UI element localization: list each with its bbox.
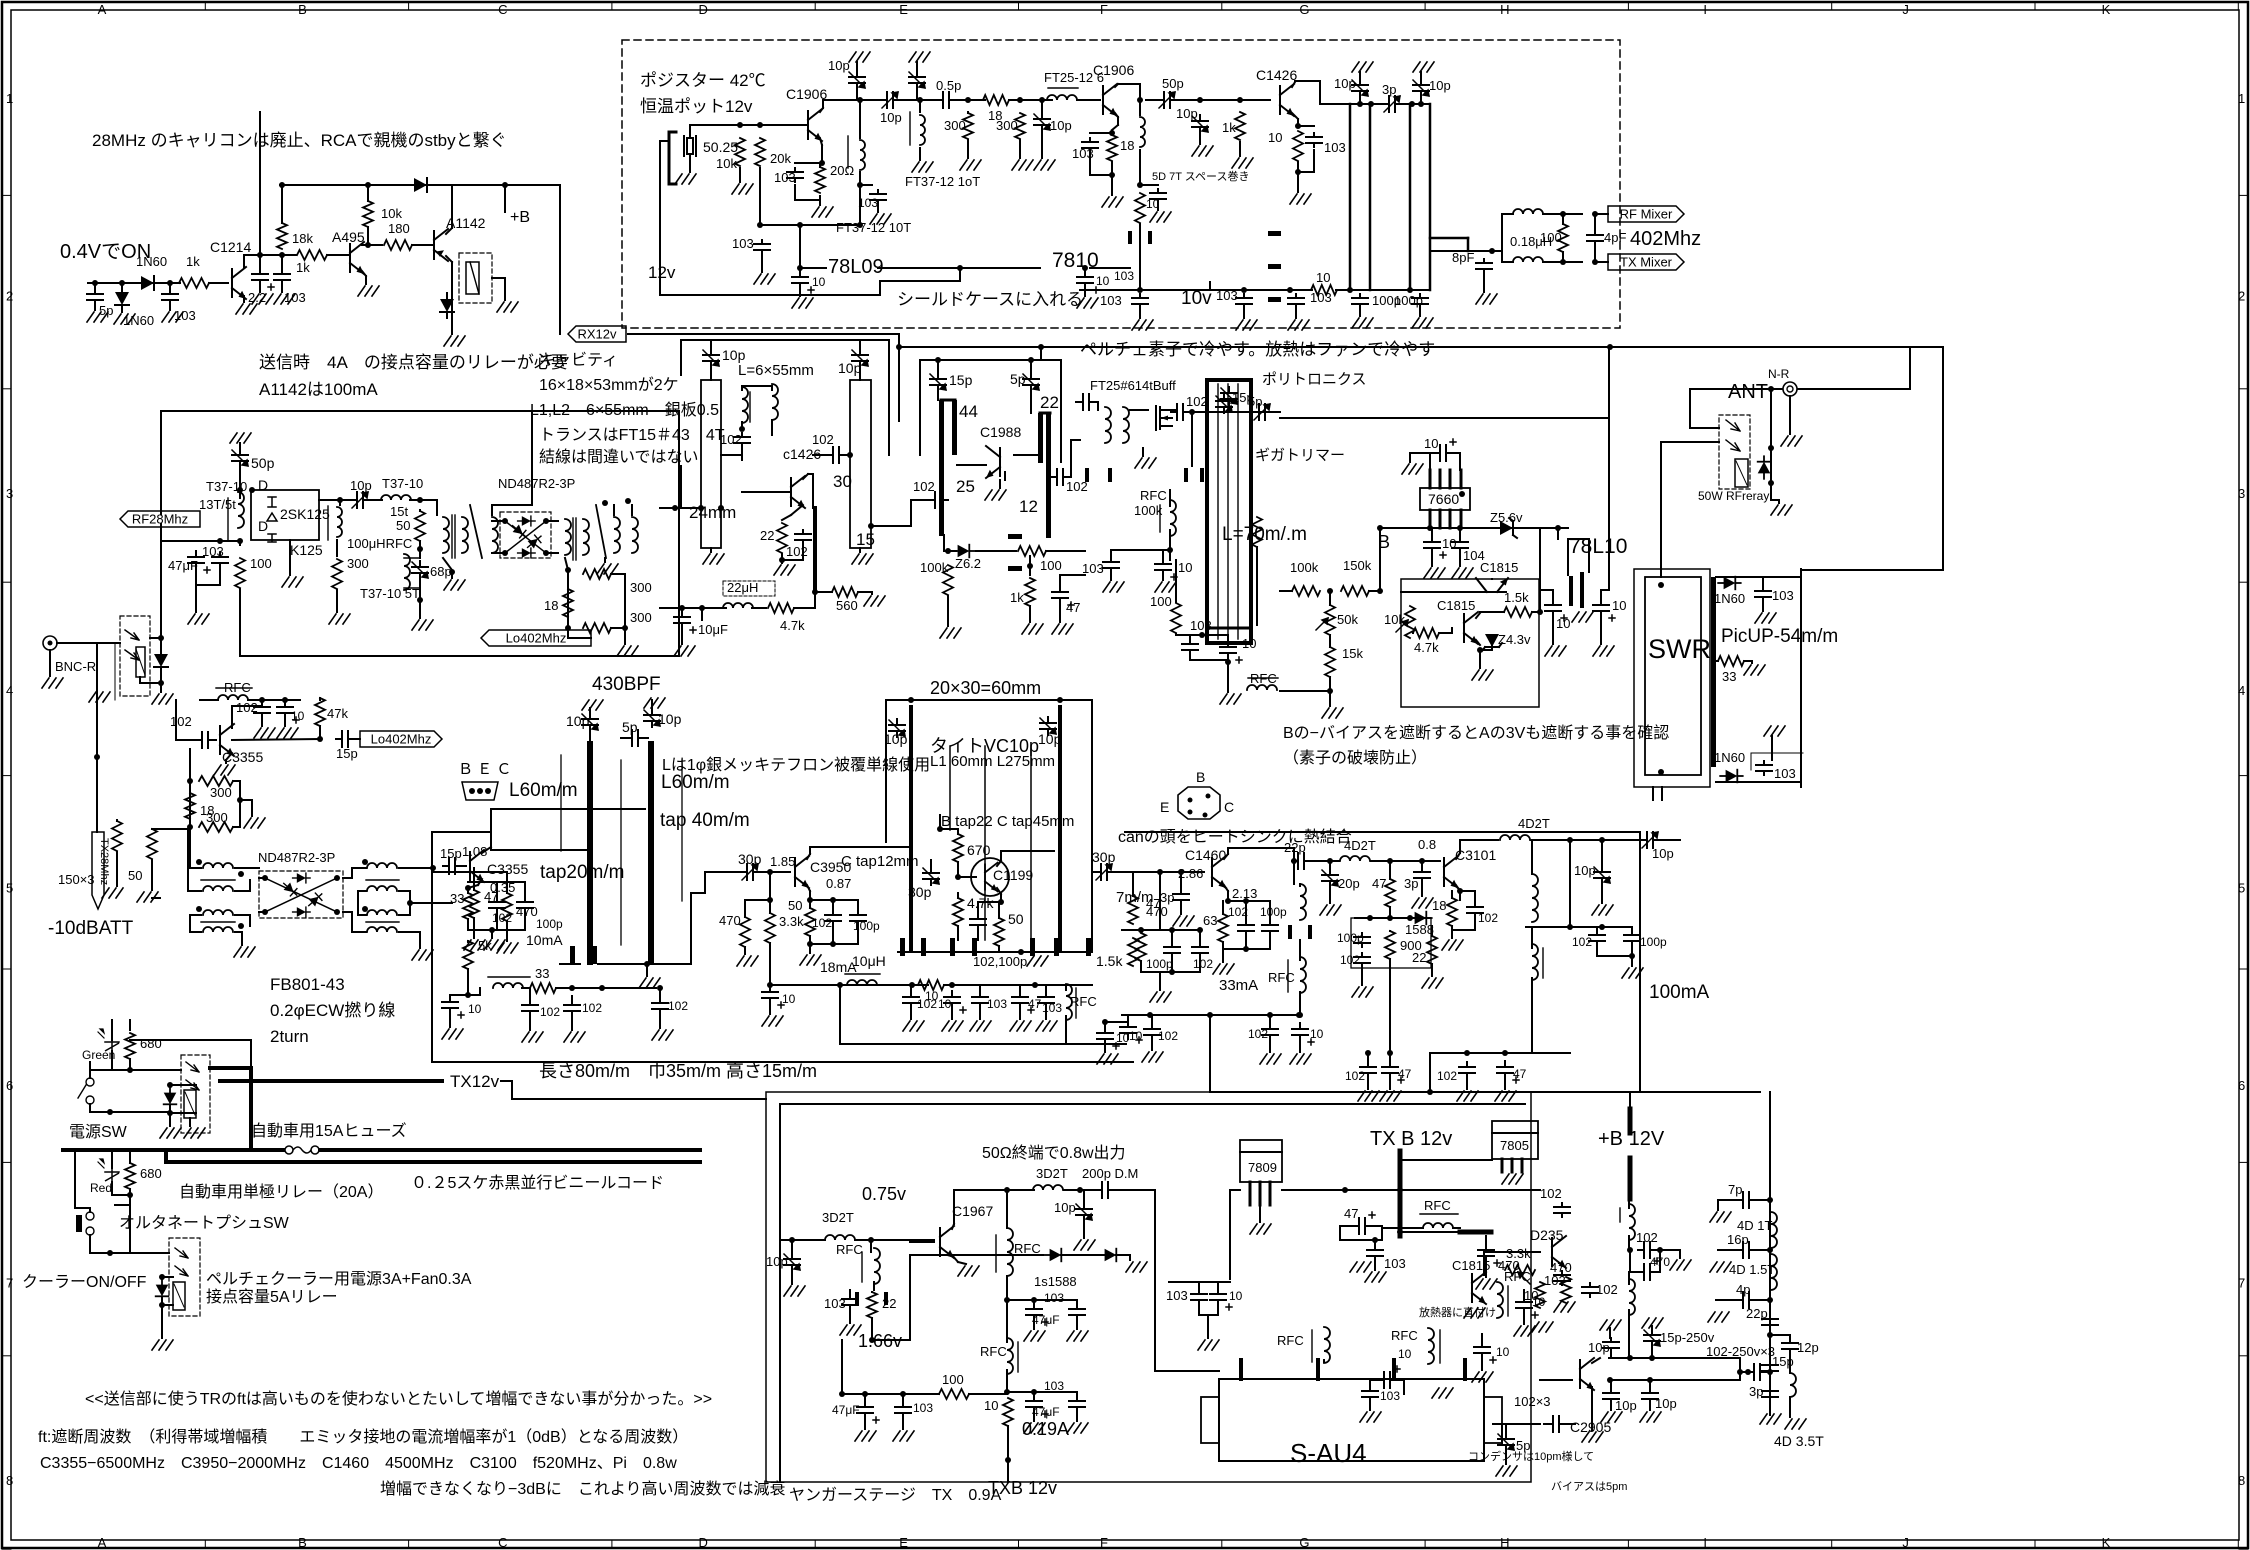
svg-text:C1199: C1199 <box>993 867 1033 883</box>
svg-text:102-250v×3: 102-250v×3 <box>1706 1344 1775 1359</box>
svg-text:10p: 10p <box>1334 76 1356 91</box>
svg-text:ペルチェクーラー用電源3A+Fan0.3A: ペルチェクーラー用電源3A+Fan0.3A <box>206 1270 472 1288</box>
svg-text:15p-250v: 15p-250v <box>1660 1330 1715 1345</box>
svg-text:47: 47 <box>1066 600 1080 615</box>
svg-text:ギガトリマー: ギガトリマー <box>1255 447 1345 464</box>
svg-text:6: 6 <box>2238 1078 2245 1093</box>
svg-text:10: 10 <box>1096 274 1110 288</box>
svg-text:F: F <box>1100 1535 1108 1550</box>
svg-text:オルタネートプシュSW: オルタネートプシュSW <box>119 1214 290 1232</box>
svg-text:103: 103 <box>1310 290 1332 305</box>
svg-text:20k: 20k <box>770 151 791 166</box>
svg-text:100p: 100p <box>1146 957 1173 971</box>
svg-text:50Ω終端で0.8w出力: 50Ω終端で0.8w出力 <box>982 1144 1126 1162</box>
svg-text:102: 102 <box>1572 935 1592 949</box>
svg-text:25: 25 <box>956 477 975 496</box>
svg-text:RFC: RFC <box>1391 1328 1418 1343</box>
svg-text:Lo402Mhz: Lo402Mhz <box>371 732 432 747</box>
svg-text:1k: 1k <box>186 254 200 269</box>
svg-text:C1815: C1815 <box>1437 598 1475 613</box>
svg-text:30p: 30p <box>908 884 932 900</box>
svg-text:FT37-12 10T: FT37-12 10T <box>836 220 911 235</box>
svg-text:10p: 10p <box>1038 731 1062 747</box>
svg-text:RX12v: RX12v <box>577 327 617 342</box>
svg-text:22: 22 <box>1412 950 1426 965</box>
svg-text:102: 102 <box>812 916 832 930</box>
svg-text:T37-10 5T: T37-10 5T <box>360 586 420 601</box>
svg-text:102: 102 <box>1540 1186 1562 1201</box>
svg-text:15t: 15t <box>390 504 408 519</box>
svg-text:10p: 10p <box>884 731 908 747</box>
svg-text:50W RFreray: 50W RFreray <box>1698 489 1769 503</box>
svg-text:10p: 10p <box>722 347 746 363</box>
svg-text:102: 102 <box>1345 1069 1365 1083</box>
svg-text:4D2T: 4D2T <box>1344 838 1376 853</box>
svg-text:100k: 100k <box>1134 503 1163 518</box>
svg-text:RF28Mhz: RF28Mhz <box>132 512 188 527</box>
svg-text:<<送信部に使うTRのftは高いものを使わないとたいして増幅: <<送信部に使うTRのftは高いものを使わないとたいして増幅できない事が分かった… <box>85 1390 712 1408</box>
svg-text:30p: 30p <box>738 851 762 867</box>
svg-text:K: K <box>2102 2 2111 17</box>
svg-text:10p: 10p <box>1429 78 1451 93</box>
svg-text:20p: 20p <box>1338 876 1360 891</box>
svg-text:7p: 7p <box>1728 1182 1742 1197</box>
svg-text:10: 10 <box>1424 436 1438 451</box>
svg-text:4D 3.5T: 4D 3.5T <box>1774 1433 1824 1449</box>
svg-text:100: 100 <box>1040 558 1062 573</box>
svg-text:150k: 150k <box>1343 558 1372 573</box>
svg-text:G: G <box>1299 1535 1309 1550</box>
svg-text:430BPF: 430BPF <box>592 674 661 695</box>
svg-text:A: A <box>98 1535 107 1550</box>
svg-text:A1142は100mA: A1142は100mA <box>259 380 378 399</box>
svg-text:10: 10 <box>1316 270 1330 285</box>
svg-text:10k: 10k <box>381 206 402 221</box>
svg-text:102: 102 <box>1186 394 1208 409</box>
svg-text:300: 300 <box>996 118 1018 133</box>
svg-text:47: 47 <box>1344 1206 1358 1221</box>
svg-text:180: 180 <box>388 221 410 236</box>
svg-text:ヤンガーステージ TX 0.9A: ヤンガーステージ TX 0.9A <box>789 1486 1002 1504</box>
svg-text:RFC: RFC <box>1070 994 1097 1009</box>
svg-text:100p: 100p <box>1337 931 1364 945</box>
svg-text:470: 470 <box>516 904 538 919</box>
svg-text:7805: 7805 <box>1500 1138 1529 1153</box>
svg-text:300: 300 <box>630 580 652 595</box>
svg-text:102: 102 <box>1066 479 1088 494</box>
svg-text:A495: A495 <box>332 229 365 245</box>
svg-text:10: 10 <box>468 1002 482 1016</box>
svg-text:RFC: RFC <box>1014 1241 1041 1256</box>
svg-text:キャビティ: キャビティ <box>539 351 618 369</box>
svg-text:FT25#614tBuff: FT25#614tBuff <box>1090 378 1176 393</box>
svg-text:47μF: 47μF <box>168 558 198 573</box>
svg-text:L1 60mm L275mm: L1 60mm L275mm <box>930 753 1055 770</box>
svg-text:24mm: 24mm <box>689 503 736 522</box>
svg-text:5D 7T スペース巻き: 5D 7T スペース巻き <box>1152 170 1250 183</box>
svg-text:7660: 7660 <box>1428 491 1459 507</box>
svg-text:103: 103 <box>1044 1291 1064 1305</box>
svg-text:100k: 100k <box>1290 560 1319 575</box>
svg-text:10: 10 <box>1496 1345 1510 1359</box>
svg-text:1.66v: 1.66v <box>858 1331 902 1351</box>
svg-text:50.25: 50.25 <box>703 139 738 155</box>
svg-text:18: 18 <box>1120 138 1134 153</box>
svg-text:50: 50 <box>788 898 802 913</box>
svg-text:50p: 50p <box>251 455 275 471</box>
svg-text:1.5k: 1.5k <box>1504 590 1529 605</box>
svg-text:103: 103 <box>913 1401 933 1415</box>
svg-text:13T/5t: 13T/5t <box>199 497 236 512</box>
svg-text:103: 103 <box>1324 140 1346 155</box>
svg-text:47: 47 <box>1513 1067 1527 1081</box>
svg-text:Z6.2: Z6.2 <box>955 556 981 571</box>
svg-text:680: 680 <box>140 1036 162 1051</box>
svg-text:電源SW: 電源SW <box>69 1123 128 1141</box>
svg-text:5p: 5p <box>1010 371 1026 387</box>
svg-text:C2905: C2905 <box>1570 1419 1611 1435</box>
svg-text:3.3k: 3.3k <box>1506 1246 1531 1261</box>
svg-text:7809: 7809 <box>1248 1160 1277 1175</box>
svg-text:0.8: 0.8 <box>1418 837 1436 852</box>
svg-text:2.2: 2.2 <box>248 290 266 305</box>
svg-text:103: 103 <box>1216 288 1238 303</box>
svg-text:10v: 10v <box>1181 288 1212 309</box>
svg-text:RFC: RFC <box>1268 970 1295 985</box>
svg-text:10p: 10p <box>1050 118 1072 133</box>
svg-text:RFC: RFC <box>1424 1198 1451 1213</box>
svg-text:（素子の破壊防止）: （素子の破壊防止） <box>1283 749 1427 767</box>
svg-text:103: 103 <box>1114 269 1134 283</box>
svg-text:G: G <box>1299 2 1309 17</box>
svg-text:K: K <box>2102 1535 2111 1550</box>
svg-text:4.7k: 4.7k <box>1414 640 1439 655</box>
svg-text:4pF: 4pF <box>1604 230 1626 245</box>
svg-text:Z5.6v: Z5.6v <box>1490 510 1523 525</box>
svg-text:3D2T: 3D2T <box>822 1210 854 1225</box>
svg-text:送信時 4A の接点容量のリレーが必要: 送信時 4A の接点容量のリレーが必要 <box>259 353 568 372</box>
svg-text:1s1588: 1s1588 <box>1034 1274 1077 1289</box>
svg-text:A: A <box>98 2 107 17</box>
svg-text:L=6×55mm: L=6×55mm <box>738 362 814 379</box>
svg-text:-10dBATT: -10dBATT <box>48 918 134 939</box>
svg-text:103: 103 <box>774 170 796 185</box>
svg-text:C1906: C1906 <box>786 86 827 102</box>
svg-text:47μF: 47μF <box>832 1403 860 1417</box>
svg-text:10: 10 <box>782 992 796 1006</box>
svg-text:RFC: RFC <box>1140 488 1167 503</box>
svg-text:1588: 1588 <box>1405 922 1434 937</box>
svg-text:103: 103 <box>1380 1389 1400 1403</box>
svg-text:10k: 10k <box>1384 612 1405 627</box>
svg-text:Lは1φ銀メッキテフロン被覆単線使用: Lは1φ銀メッキテフロン被覆単線使用 <box>662 756 930 774</box>
svg-text:1N60: 1N60 <box>1714 750 1745 765</box>
svg-text:22: 22 <box>1040 393 1059 412</box>
svg-text:D: D <box>699 1535 708 1550</box>
svg-text:15p: 15p <box>949 372 973 388</box>
svg-text:10p: 10p <box>1574 863 1596 878</box>
svg-text:1k: 1k <box>1222 120 1236 135</box>
svg-text:PicUP-54m/m: PicUP-54m/m <box>1721 626 1838 647</box>
svg-text:50k: 50k <box>1337 612 1358 627</box>
svg-text:1N60: 1N60 <box>1714 591 1745 606</box>
svg-text:50: 50 <box>396 518 410 533</box>
svg-text:22: 22 <box>882 1296 896 1311</box>
svg-text:102: 102 <box>236 700 258 715</box>
svg-text:20Ω: 20Ω <box>830 163 854 178</box>
svg-text:102: 102 <box>1636 1230 1658 1245</box>
svg-text:C: C <box>498 1535 507 1550</box>
svg-text:7: 7 <box>6 1275 13 1290</box>
svg-text:102: 102 <box>913 479 935 494</box>
svg-text:Green: Green <box>82 1048 115 1062</box>
svg-text:J: J <box>1902 2 1909 17</box>
svg-text:44: 44 <box>959 402 978 421</box>
svg-text:63: 63 <box>1203 913 1217 928</box>
svg-text:102: 102 <box>668 999 688 1013</box>
svg-text:B tap22 C tap45mm: B tap22 C tap45mm <box>941 813 1074 830</box>
svg-text:B: B <box>298 1535 307 1550</box>
svg-text:10p: 10p <box>1652 846 1674 861</box>
svg-text:RFC: RFC <box>980 1344 1007 1359</box>
svg-text:560: 560 <box>836 598 858 613</box>
svg-text:0.87: 0.87 <box>826 876 851 891</box>
svg-text:F: F <box>1100 2 1108 17</box>
svg-text:2: 2 <box>6 288 13 303</box>
svg-text:0.75v: 0.75v <box>862 1184 906 1204</box>
svg-text:Red: Red <box>90 1181 112 1195</box>
svg-text:I: I <box>1703 2 1707 17</box>
svg-text:100p: 100p <box>536 917 563 931</box>
svg-text:18: 18 <box>544 598 558 613</box>
svg-text:102: 102 <box>1437 1069 1457 1083</box>
svg-text:Lo402Mhz: Lo402Mhz <box>506 631 567 646</box>
svg-text:4.7k: 4.7k <box>780 618 805 633</box>
svg-text:E: E <box>899 1535 908 1550</box>
svg-text:C1967: C1967 <box>952 1203 993 1219</box>
svg-text:トランスはFT15＃43 4T: トランスはFT15＃43 4T <box>539 427 725 444</box>
svg-text:102: 102 <box>1158 1029 1178 1043</box>
svg-text:15: 15 <box>856 530 875 549</box>
svg-text:10: 10 <box>291 709 305 723</box>
svg-text:103: 103 <box>1082 561 1104 576</box>
svg-text:1: 1 <box>2238 91 2245 106</box>
svg-text:10p: 10p <box>1588 1340 1610 1355</box>
svg-text:10: 10 <box>1310 1027 1324 1041</box>
svg-text:2turn: 2turn <box>270 1027 309 1046</box>
svg-text:C1815: C1815 <box>1480 560 1518 575</box>
svg-text:10p: 10p <box>658 711 682 727</box>
svg-text:30p: 30p <box>1092 849 1116 865</box>
svg-text:300: 300 <box>210 785 232 800</box>
svg-text:100k: 100k <box>920 560 949 575</box>
svg-text:E: E <box>899 2 908 17</box>
svg-text:100p: 100p <box>1640 935 1667 949</box>
svg-text:100p: 100p <box>1394 293 1423 308</box>
svg-text:L60m/m: L60m/m <box>509 780 578 801</box>
svg-text:3: 3 <box>2238 486 2245 501</box>
svg-text:10: 10 <box>1556 616 1570 631</box>
svg-text:5p: 5p <box>1516 1438 1530 1453</box>
svg-text:10: 10 <box>1612 598 1626 613</box>
svg-text:T37-10: T37-10 <box>206 479 247 494</box>
svg-text:10p: 10p <box>1615 1398 1637 1413</box>
svg-text:100mA: 100mA <box>1649 982 1710 1003</box>
svg-text:3D2T: 3D2T <box>1036 1166 1068 1181</box>
svg-text:3p: 3p <box>1404 876 1418 891</box>
svg-text:T37-10: T37-10 <box>382 476 423 491</box>
svg-text:103: 103 <box>824 1296 846 1311</box>
svg-text:L=70m/.m: L=70m/.m <box>1222 524 1307 545</box>
svg-text:3.3k: 3.3k <box>779 914 804 929</box>
svg-text:TX Mixer: TX Mixer <box>1620 255 1673 270</box>
svg-text:10p: 10p <box>828 58 850 73</box>
svg-text:ND487R2-3P: ND487R2-3P <box>258 850 335 865</box>
svg-text:0.19A: 0.19A <box>1022 1419 1069 1439</box>
svg-text:18: 18 <box>1432 898 1446 913</box>
svg-text:300: 300 <box>630 610 652 625</box>
svg-text:０.２5スケ赤黒並行ビニールコード: ０.２5スケ赤黒並行ビニールコード <box>411 1174 664 1192</box>
svg-text:47k: 47k <box>327 706 348 721</box>
svg-text:103: 103 <box>1772 588 1794 603</box>
svg-text:クーラーON/OFF: クーラーON/OFF <box>22 1273 147 1291</box>
svg-text:2: 2 <box>2238 288 2245 303</box>
svg-text:50p: 50p <box>1162 76 1184 91</box>
svg-text:102: 102 <box>1248 1027 1268 1041</box>
svg-text:C1988: C1988 <box>980 424 1021 440</box>
svg-text:放熱器に直付け: 放熱器に直付け <box>1419 1305 1496 1319</box>
svg-text:16p: 16p <box>1727 1232 1749 1247</box>
svg-text:canの頭をヒートシンクに熱結合: canの頭をヒートシンクに熱結合 <box>1118 828 1352 846</box>
svg-text:10p: 10p <box>1176 106 1198 121</box>
svg-text:ペルチェ素子で冷やす。放熱はファンで冷やす: ペルチェ素子で冷やす。放熱はファンで冷やす <box>1080 340 1435 359</box>
svg-text:Bの−バイアスを遮断するとAの3Vも遮断する事を確認: Bの−バイアスを遮断するとAの3Vも遮断する事を確認 <box>1283 724 1669 742</box>
svg-text:I: I <box>1703 1535 1707 1550</box>
svg-text:20×30=60mm: 20×30=60mm <box>930 678 1041 698</box>
svg-text:TX B 12v: TX B 12v <box>1370 1128 1452 1150</box>
svg-text:103: 103 <box>1044 1379 1064 1393</box>
svg-text:103: 103 <box>1774 766 1796 781</box>
svg-text:402Mhz: 402Mhz <box>1630 228 1701 250</box>
svg-text:10p: 10p <box>880 110 902 125</box>
svg-text:TXB 12v: TXB 12v <box>988 1478 1057 1498</box>
svg-text:長さ80m/m 巾35m/m 高さ15m/m: 長さ80m/m 巾35m/m 高さ15m/m <box>539 1061 817 1081</box>
svg-text:5p: 5p <box>622 719 638 735</box>
svg-text:102: 102 <box>1544 1273 1566 1288</box>
svg-text:102,100p: 102,100p <box>973 954 1027 969</box>
svg-text:300: 300 <box>347 556 369 571</box>
svg-text:10p: 10p <box>766 1254 788 1269</box>
svg-text:1.5k: 1.5k <box>1096 953 1123 969</box>
svg-text:28MHz のキャリコンは廃止、RCAで親機のstbyと繋ぐ: 28MHz のキャリコンは廃止、RCAで親機のstbyと繋ぐ <box>92 131 507 150</box>
svg-text:シールドケースに入れる: シールドケースに入れる <box>897 290 1083 309</box>
svg-text:C1214: C1214 <box>210 239 251 255</box>
svg-text:ポリトロニクス: ポリトロニクス <box>1262 371 1367 388</box>
svg-text:4D2T: 4D2T <box>1518 816 1550 831</box>
svg-text:1N60: 1N60 <box>123 313 154 328</box>
svg-text:16×18×53mmが2ケ: 16×18×53mmが2ケ <box>539 376 679 394</box>
svg-text:12v: 12v <box>648 263 676 282</box>
svg-text:103: 103 <box>202 544 224 559</box>
svg-text:100: 100 <box>1150 594 1172 609</box>
svg-text:10μF: 10μF <box>698 622 728 637</box>
svg-text:RF Mixer: RF Mixer <box>1620 207 1673 222</box>
svg-text:ND487R2-3P: ND487R2-3P <box>498 476 575 491</box>
svg-text:K125: K125 <box>290 542 323 558</box>
svg-text:1: 1 <box>6 91 13 106</box>
svg-text:12p: 12p <box>1797 1340 1819 1355</box>
svg-text:tap 40m/m: tap 40m/m <box>660 810 750 831</box>
svg-text:1k: 1k <box>296 260 310 275</box>
svg-text:0.2φECW撚り線: 0.2φECW撚り線 <box>270 1001 395 1020</box>
svg-text:1N60: 1N60 <box>136 254 167 269</box>
svg-text:10p: 10p <box>1054 1200 1076 1215</box>
svg-text:103: 103 <box>1166 1288 1188 1303</box>
svg-text:33mA: 33mA <box>1219 977 1258 994</box>
svg-text:22μH: 22μH <box>727 580 758 595</box>
svg-text:10: 10 <box>1398 1347 1412 1361</box>
svg-text:100: 100 <box>942 1372 964 1387</box>
svg-text:S-AU4: S-AU4 <box>1290 1438 1367 1468</box>
svg-text:H: H <box>1500 1535 1509 1550</box>
svg-text:10k: 10k <box>716 156 737 171</box>
svg-text:200p D.M: 200p D.M <box>1082 1166 1138 1181</box>
svg-text:1k: 1k <box>1010 590 1024 605</box>
svg-text:300: 300 <box>944 118 966 133</box>
svg-text:接点容量5Aリレー: 接点容量5Aリレー <box>206 1288 338 1306</box>
svg-text:78L09: 78L09 <box>828 256 884 278</box>
svg-text:15p: 15p <box>440 846 462 861</box>
svg-text:47: 47 <box>1398 1067 1412 1081</box>
svg-text:3p: 3p <box>1160 890 1174 905</box>
svg-text:102: 102 <box>1478 911 1498 925</box>
svg-text:8: 8 <box>6 1473 13 1488</box>
svg-text:470: 470 <box>1146 904 1168 919</box>
svg-text:TX28Mhz: TX28Mhz <box>98 838 110 885</box>
svg-text:102: 102 <box>720 432 742 447</box>
svg-text:BNC-R: BNC-R <box>55 659 96 674</box>
svg-text:自動車用単極リレー（20A）: 自動車用単極リレー（20A） <box>179 1183 383 1201</box>
svg-text:103: 103 <box>284 290 306 305</box>
svg-text:C1906: C1906 <box>1093 62 1134 78</box>
svg-text:22: 22 <box>760 528 774 543</box>
svg-text:ANT: ANT <box>1728 381 1768 403</box>
svg-text:15k: 15k <box>1342 646 1363 661</box>
svg-text:10: 10 <box>1268 130 1282 145</box>
svg-text:10p: 10p <box>838 360 862 376</box>
svg-text:103: 103 <box>858 196 878 210</box>
svg-text:10mA: 10mA <box>526 932 563 948</box>
svg-text:C: C <box>1224 799 1234 815</box>
svg-text:L60m/m: L60m/m <box>661 772 730 793</box>
svg-text:Ｂ Ｅ Ｃ: Ｂ Ｅ Ｃ <box>458 761 511 778</box>
svg-text:8: 8 <box>2238 1473 2245 1488</box>
svg-text:103: 103 <box>1100 293 1122 308</box>
svg-text:+B: +B <box>510 209 530 226</box>
svg-text:47μF: 47μF <box>1032 1313 1060 1327</box>
svg-text:10: 10 <box>1229 1289 1243 1303</box>
svg-text:Z4.3v: Z4.3v <box>1498 632 1531 647</box>
svg-text:10: 10 <box>1178 560 1192 575</box>
svg-text:RFC: RFC <box>1277 1333 1304 1348</box>
svg-text:5: 5 <box>2238 881 2245 896</box>
svg-text:N-R: N-R <box>1768 367 1790 381</box>
svg-text:C3101: C3101 <box>1455 847 1496 863</box>
svg-text:1.85: 1.85 <box>770 854 795 869</box>
svg-text:47μF: 47μF <box>1032 1405 1060 1419</box>
svg-text:10: 10 <box>1524 1288 1538 1303</box>
svg-text:6: 6 <box>6 1078 13 1093</box>
